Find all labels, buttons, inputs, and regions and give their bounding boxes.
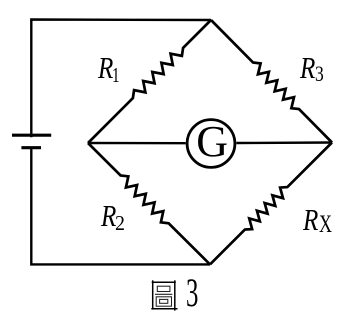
- label RX: subscript X: [319, 212, 332, 237]
- wire: galvanometer to right node: [236, 141, 332, 144]
- galvanometer letter G: [196, 120, 228, 164]
- battery long plate: [12, 134, 51, 137]
- galvanometer circle U1: [187, 120, 235, 168]
- resistor RX (bottom node to right node): [210, 143, 332, 265]
- label R2: subscript 2: [115, 213, 125, 234]
- wire: battery negative down left side and across bottom to bottom node: [31, 148, 210, 265]
- label R3: R: [300, 52, 315, 83]
- label R1: subscript 1: [112, 65, 120, 86]
- wire: left node to galvanometer: [88, 142, 186, 145]
- wire: battery positive up left side and across top to top node: [31, 20, 211, 138]
- label R1: R: [98, 52, 113, 83]
- label R2: R: [101, 200, 116, 231]
- caption number 3: [186, 273, 198, 313]
- label R3: subscript 3: [315, 63, 324, 85]
- battery short plate: [21, 146, 41, 149]
- resistor R2 (left node to bottom node): [88, 143, 210, 264]
- resistor R3 (top node to right node): [211, 20, 332, 143]
- resistor R1 (left node to top node): [88, 20, 211, 143]
- label RX: R: [303, 204, 318, 235]
